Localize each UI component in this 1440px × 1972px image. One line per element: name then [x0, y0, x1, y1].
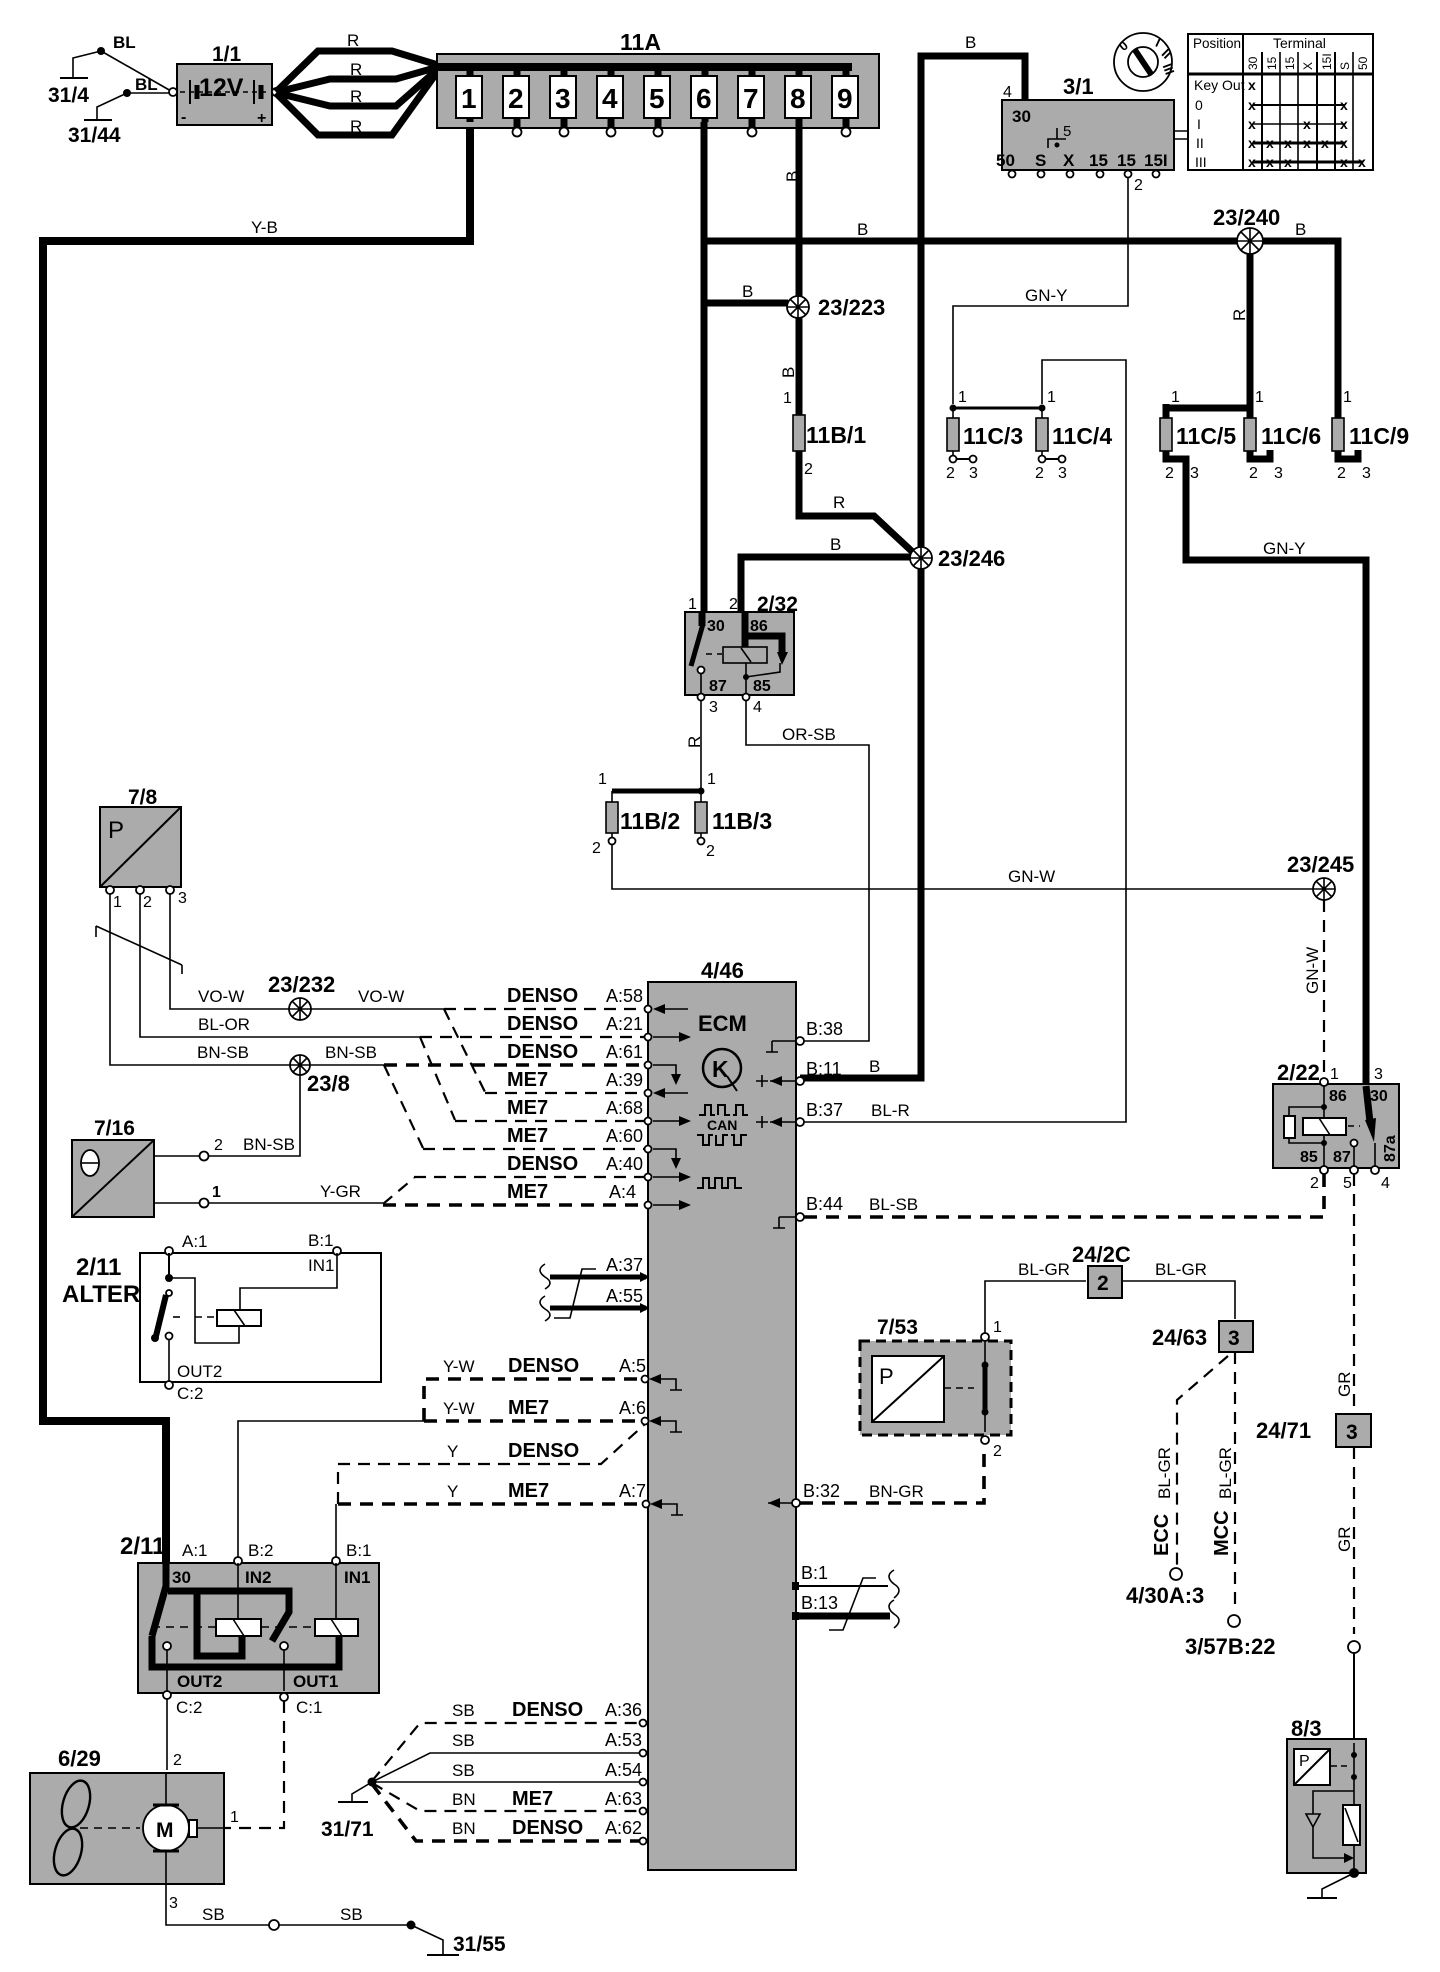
svg-text:DENSO: DENSO [508, 1355, 579, 1377]
wire Y-GR from 7/16 pin 1 to ECM A:4 [154, 1182, 383, 1208]
svg-text:50: 50 [1356, 56, 1370, 70]
svg-text:P: P [879, 1364, 894, 1389]
fuse 11B/1 [783, 390, 866, 478]
svg-text:23/223: 23/223 [818, 295, 885, 320]
svg-text:R: R [347, 31, 359, 50]
twisted-wire slash across 7/8 leads [96, 926, 182, 974]
svg-text:2: 2 [592, 840, 601, 857]
wire SB from 6/29 pin 3 to ground 31/55 [166, 1884, 416, 1930]
ECM left pin row A:21 [645, 1032, 692, 1042]
node 23/240 [1213, 205, 1280, 254]
svg-text:SB: SB [452, 1701, 475, 1720]
svg-text:Y-W: Y-W [443, 1399, 475, 1418]
svg-text:K: K [712, 1056, 729, 1082]
svg-text:I: I [1197, 116, 1201, 132]
svg-text:1: 1 [230, 1809, 239, 1826]
svg-text:SB: SB [452, 1761, 475, 1780]
svg-text:87: 87 [709, 678, 727, 695]
wire B horizontal bus from fuse 6/8 to 11C/9 [704, 220, 1338, 404]
svg-text:A:36: A:36 [605, 1700, 642, 1720]
svg-text:11C/4: 11C/4 [1052, 423, 1112, 449]
ECM left pin row A:68 [645, 1116, 692, 1126]
svg-text:A:62: A:62 [605, 1818, 642, 1838]
ignition key symbol [1114, 33, 1178, 91]
svg-text:SB: SB [452, 1731, 475, 1750]
svg-text:Terminal: Terminal [1273, 35, 1326, 51]
connector 24/2C [1072, 1242, 1131, 1298]
fuse 11C/3 [946, 389, 1046, 482]
svg-text:C:2: C:2 [177, 1384, 203, 1403]
ECM right pin B:11 (B thick) [756, 1059, 842, 1087]
fuse 1 [456, 67, 482, 122]
ECM right pin B:38 [766, 1019, 843, 1052]
svg-text:31/71: 31/71 [321, 1818, 374, 1841]
svg-text:OUT1: OUT1 [293, 1672, 338, 1691]
svg-text:III: III [1195, 154, 1207, 170]
battery 1/1 12V [169, 43, 280, 127]
svg-text:A:1: A:1 [182, 1232, 208, 1251]
svg-text:31/44: 31/44 [68, 124, 121, 147]
relay 2/11 (lower, twin relay) [120, 1533, 379, 1717]
svg-text:R: R [350, 87, 362, 106]
ground at 8/3 [1307, 1873, 1354, 1898]
svg-text:A:1: A:1 [182, 1541, 208, 1560]
svg-text:1: 1 [598, 771, 607, 788]
wire BN to ECM A:62 [372, 1784, 642, 1841]
svg-text:11C/9: 11C/9 [1349, 423, 1409, 449]
svg-text:R: R [350, 60, 362, 79]
svg-text:X: X [1301, 62, 1315, 70]
svg-text:DENSO: DENSO [507, 1013, 578, 1035]
svg-text:12V: 12V [199, 74, 244, 102]
svg-text:3: 3 [1346, 1421, 1358, 1444]
relay 2/22 [1273, 1060, 1399, 1192]
ECM A:37 / A:55 thick pigtails [540, 1255, 650, 1321]
ECM right pins B:1 / B:13 pigtails [792, 1563, 899, 1630]
svg-text:SB: SB [340, 1905, 363, 1924]
svg-text:R: R [350, 117, 362, 136]
svg-text:DENSO: DENSO [512, 1699, 583, 1721]
svg-text:3: 3 [1190, 465, 1199, 482]
relay 2/32 [685, 593, 798, 716]
AC pressure sensor 7/53 [860, 1316, 1011, 1460]
svg-text:B:32: B:32 [803, 1481, 840, 1501]
svg-text:B:1: B:1 [308, 1231, 334, 1250]
wire GR dashed from 24/71 to 8/3 [1335, 1447, 1360, 1743]
svg-text:CAN: CAN [707, 1117, 737, 1133]
svg-text:OR-SB: OR-SB [782, 725, 836, 744]
svg-text:9: 9 [837, 83, 853, 114]
svg-text:8: 8 [790, 83, 806, 114]
wire BL-GR from 24/2C to 24/63 [1122, 1260, 1235, 1319]
ECM left pin row A:4 [645, 1200, 692, 1210]
svg-text:15I: 15I [1320, 53, 1334, 70]
svg-text:24/2C: 24/2C [1072, 1242, 1131, 1267]
node 23/246 [910, 546, 1005, 571]
svg-text:Y: Y [447, 1442, 458, 1461]
svg-text:C:1: C:1 [296, 1698, 322, 1717]
svg-text:3/57B:22: 3/57B:22 [1185, 1634, 1276, 1659]
fuse 4 [597, 67, 623, 137]
svg-text:1/1: 1/1 [212, 43, 242, 66]
ground 31/4 [48, 47, 105, 107]
svg-text:BL-GR: BL-GR [1155, 1447, 1174, 1499]
fuse 11C/9 [1332, 389, 1409, 482]
ECM left pin row A:5 [642, 1374, 683, 1390]
svg-text:IN1: IN1 [308, 1256, 334, 1275]
svg-text:A:7: A:7 [619, 1481, 646, 1501]
svg-text:23/245: 23/245 [1287, 852, 1354, 877]
svg-text:1: 1 [707, 771, 716, 788]
svg-text:B: B [779, 367, 798, 378]
svg-text:BL: BL [135, 75, 158, 94]
svg-text:3: 3 [709, 699, 718, 716]
svg-text:3: 3 [178, 890, 187, 907]
svg-text:A:58: A:58 [606, 986, 643, 1006]
svg-text:1: 1 [1343, 389, 1352, 406]
svg-text:P: P [1299, 1753, 1310, 1770]
wire GN-W from 11B/2 pin 2 to node 23/245 [612, 845, 1313, 889]
svg-text:BN: BN [452, 1819, 476, 1838]
svg-text:3: 3 [1374, 1066, 1383, 1083]
ignition switch 3/1 [996, 74, 1188, 194]
connector 4/30A:3 [1126, 1568, 1204, 1608]
svg-text:7: 7 [743, 83, 759, 114]
svg-text:ME7: ME7 [507, 1181, 548, 1203]
svg-text:S: S [1338, 62, 1352, 70]
wire R from 2/32 pin 3 to 11B/3 [685, 700, 704, 791]
svg-text:87a: 87a [1382, 1135, 1399, 1162]
wire Y from 2/11 pin B:1 to ECM A:6/A:7 [336, 1424, 646, 1559]
svg-text:B:1: B:1 [801, 1563, 828, 1583]
svg-text:ME7: ME7 [508, 1397, 549, 1419]
svg-text:BN-SB: BN-SB [325, 1043, 377, 1062]
wire B from fuse 8 down through 23/223 and 11B/1 to 23/246 [779, 122, 918, 557]
svg-text:23/232: 23/232 [268, 972, 335, 997]
svg-text:B:11: B:11 [806, 1059, 842, 1079]
svg-text:2: 2 [143, 894, 152, 911]
svg-text:GR: GR [1335, 1527, 1354, 1553]
svg-text:11C/6: 11C/6 [1261, 423, 1321, 449]
relay 2/11 ALTER (upper diagram) [62, 1231, 381, 1403]
svg-text:ME7: ME7 [507, 1125, 548, 1147]
ground 31/55 [411, 1925, 506, 1956]
ECM left pin row A:58 [645, 1004, 689, 1014]
fuse 6 [691, 67, 717, 122]
ECM left pin row A:61 [645, 1062, 682, 1086]
ECM left pins A:36 A:53 A:54 A:63 A:62 [640, 1720, 647, 1845]
svg-text:DENSO: DENSO [507, 1153, 578, 1175]
svg-text:R: R [833, 493, 845, 512]
svg-text:A:60: A:60 [606, 1126, 643, 1146]
svg-text:2: 2 [1035, 465, 1044, 482]
svg-text:2/11: 2/11 [120, 1533, 165, 1560]
node 23/8 [290, 1055, 350, 1096]
svg-text:A:63: A:63 [605, 1789, 642, 1809]
wire SB to ECM A:36 [372, 1699, 642, 1781]
svg-text:Y-GR: Y-GR [320, 1182, 361, 1201]
svg-text:OUT2: OUT2 [177, 1672, 222, 1691]
svg-text:1: 1 [993, 1319, 1002, 1336]
wire OR-SB from 2/32 pin 4 to ECM B:38 [746, 700, 869, 1041]
node 23/245 [1287, 852, 1354, 900]
svg-text:3/1: 3/1 [1063, 74, 1094, 99]
svg-text:Y-W: Y-W [443, 1357, 475, 1376]
node 23/223 [787, 295, 885, 320]
svg-text:ECC: ECC [1151, 1514, 1173, 1556]
svg-text:B: B [742, 282, 753, 301]
svg-text:BL-GR: BL-GR [1216, 1447, 1235, 1499]
svg-text:1: 1 [958, 389, 967, 406]
fuse 11C/5 and wire GN-Y to relay 2/22 [1160, 389, 1366, 1086]
dashed wire from 2/11 C:1 to fan motor 6/29 pin 1 [225, 1701, 284, 1828]
svg-text:GN-W: GN-W [1303, 947, 1322, 994]
svg-text:ME7: ME7 [507, 1097, 548, 1119]
wire BL-R from 11C/4 to ECM B:37 [800, 360, 1126, 1122]
ECM left pin row A:60 [645, 1146, 682, 1170]
ECM left pin row A:40 [645, 1172, 692, 1182]
svg-text:VO-W: VO-W [358, 987, 404, 1006]
svg-text:B: B [830, 535, 841, 554]
svg-text:2/11: 2/11 [76, 1254, 121, 1281]
fuse 5 [644, 67, 670, 137]
svg-text:4/46: 4/46 [701, 958, 744, 983]
svg-text:23/240: 23/240 [1213, 205, 1280, 230]
svg-text:2: 2 [1097, 1272, 1109, 1295]
svg-text:11C/5: 11C/5 [1176, 423, 1236, 449]
wire BN to ECM A:63 [372, 1783, 642, 1811]
svg-text:2: 2 [173, 1752, 182, 1769]
svg-text:30: 30 [707, 618, 725, 635]
ECM 4/46 [648, 958, 796, 1870]
svg-text:+: + [257, 110, 266, 127]
svg-text:IN1: IN1 [344, 1568, 370, 1587]
svg-text:DENSO: DENSO [508, 1440, 579, 1462]
svg-text:5: 5 [1343, 1175, 1352, 1192]
ground 31/44 [68, 89, 131, 147]
svg-text:11B/2: 11B/2 [620, 808, 680, 834]
wire BL-GR from 7/53 pin 1 via 24/2C to 24/63 [985, 1260, 1086, 1333]
svg-text:15I: 15I [1144, 151, 1168, 170]
svg-text:DENSO: DENSO [512, 1817, 583, 1839]
svg-text:ME7: ME7 [508, 1480, 549, 1502]
fuse 11C/6 [1244, 389, 1321, 482]
ignition position/terminal table [1188, 34, 1373, 170]
wire from 2/11 C:2 to fan motor 6/29 pin 2 [167, 1699, 182, 1770]
svg-text:BL-R: BL-R [871, 1101, 910, 1120]
svg-text:BL-SB: BL-SB [869, 1195, 918, 1214]
svg-text:2: 2 [1165, 465, 1174, 482]
svg-text:B:37: B:37 [806, 1100, 843, 1120]
svg-text:5: 5 [649, 83, 665, 114]
svg-text:1: 1 [1330, 1066, 1339, 1083]
svg-text:4: 4 [1003, 84, 1012, 101]
svg-text:A:40: A:40 [606, 1154, 643, 1174]
svg-text:BL-GR: BL-GR [1155, 1260, 1207, 1279]
svg-text:B:1: B:1 [346, 1541, 372, 1560]
svg-text:A:37: A:37 [606, 1255, 643, 1275]
svg-text:3: 3 [1274, 465, 1283, 482]
svg-text:MCC: MCC [1211, 1510, 1233, 1556]
wire R from 23/240 down to 11C/5-11C/6 [1166, 254, 1250, 408]
svg-text:24/63: 24/63 [1152, 1325, 1207, 1350]
fuse box 11A [437, 29, 879, 128]
svg-text:11B/3: 11B/3 [712, 808, 772, 834]
ECM left pin row A:7 [643, 1499, 684, 1515]
svg-text:24/71: 24/71 [1256, 1418, 1311, 1443]
svg-text:M: M [156, 1819, 174, 1842]
svg-text:2: 2 [1249, 465, 1258, 482]
wire SB to ECM A:54 [372, 1760, 642, 1782]
ECM right pin B:44 and dashed BL-SB wire to 2/22 pin 2 [773, 1174, 1324, 1228]
svg-text:VO-W: VO-W [198, 987, 244, 1006]
svg-text:GN-Y: GN-Y [1025, 286, 1068, 305]
svg-text:BN: BN [452, 1790, 476, 1809]
svg-text:86: 86 [1329, 1088, 1347, 1105]
svg-text:C:2: C:2 [176, 1698, 202, 1717]
connector 24/71 [1256, 1414, 1371, 1447]
svg-text:BN-SB: BN-SB [197, 1043, 249, 1062]
wire SB to ECM A:53 [372, 1730, 642, 1782]
svg-text:ME7: ME7 [512, 1788, 553, 1810]
svg-text:R: R [685, 736, 704, 748]
svg-text:II: II [1196, 135, 1204, 151]
svg-text:Position: Position [1193, 36, 1241, 51]
svg-text:A:54: A:54 [605, 1760, 642, 1780]
svg-text:BL-GR: BL-GR [1018, 1260, 1070, 1279]
svg-text:3: 3 [169, 1895, 178, 1912]
dashed BL-GR wires from 24/63 to ECC and MCC [1151, 1352, 1235, 1612]
wire VO-W from 7/8 pin 3 to 23/232 and ECM A:58 [170, 894, 444, 1009]
svg-text:2: 2 [804, 461, 813, 478]
svg-text:BL-OR: BL-OR [198, 1015, 250, 1034]
svg-text:BL: BL [113, 33, 136, 52]
fuse 8 [785, 67, 811, 122]
svg-text:50: 50 [996, 151, 1015, 170]
wire GN-W dashed from 23/245 to relay 2/22 pin 1 [1303, 900, 1324, 1080]
ground 31/71 with SB/BN fan-out to ECM [321, 1778, 377, 1842]
wire B vertical main feed to 23/246 and ECM B:11 [800, 33, 1025, 1078]
svg-text:1: 1 [688, 596, 697, 613]
svg-text:SB: SB [202, 1905, 225, 1924]
svg-text:2: 2 [214, 1137, 223, 1154]
connector 24/63 [1152, 1321, 1253, 1352]
ECM right pin B:37 [756, 1100, 910, 1128]
svg-text:85: 85 [753, 678, 771, 695]
svg-text:ME7: ME7 [507, 1069, 548, 1091]
svg-text:B:13: B:13 [801, 1593, 838, 1613]
svg-text:3: 3 [1228, 1327, 1240, 1350]
svg-text:-: - [181, 109, 186, 126]
svg-text:2: 2 [706, 843, 715, 860]
svg-text:B: B [783, 171, 802, 182]
svg-text:ALTER: ALTER [62, 1281, 140, 1308]
svg-text:4: 4 [753, 699, 762, 716]
wire BL from 31/4 to battery [101, 33, 171, 91]
svg-text:1: 1 [783, 390, 792, 407]
svg-text:BN-SB: BN-SB [243, 1135, 295, 1154]
wire B from fuse 6 down to relay 2/32 pin 1 [704, 122, 753, 614]
svg-text:A:68: A:68 [606, 1098, 643, 1118]
fuse 7 [738, 67, 764, 137]
svg-text:11A: 11A [620, 29, 661, 55]
wire BL-OR from 7/8 pin 2 to ECM A:21 [140, 894, 420, 1037]
svg-text:11C/3: 11C/3 [963, 423, 1023, 449]
wire B from 23/246 left and down to relay 2/32 pin 2 [741, 535, 910, 614]
fuse 2 [503, 67, 529, 137]
svg-text:B:44: B:44 [806, 1194, 843, 1214]
svg-text:Key Out: Key Out [1194, 77, 1245, 93]
svg-text:31/4: 31/4 [48, 84, 89, 107]
svg-text:31/55: 31/55 [453, 1933, 506, 1956]
svg-text:Y: Y [447, 1482, 458, 1501]
svg-text:3: 3 [969, 465, 978, 482]
pressure sensor 7/8 [100, 786, 187, 911]
svg-text:ECM: ECM [698, 1011, 747, 1036]
svg-text:GN-W: GN-W [1008, 867, 1055, 886]
svg-text:2/22: 2/22 [1277, 1060, 1320, 1085]
svg-text:2: 2 [1337, 465, 1346, 482]
connector 3/57B:22 [1185, 1615, 1276, 1659]
svg-text:4: 4 [1381, 1175, 1390, 1192]
wire BN-SB from 7/16 pin 2 to node 23/8 [154, 1075, 300, 1161]
svg-text:GR: GR [1335, 1372, 1354, 1398]
svg-text:B: B [1295, 220, 1306, 239]
svg-text:x: x [1248, 77, 1256, 93]
svg-text:2: 2 [508, 83, 524, 114]
wire Y-W from 2/11 pin B:2 to ECM A:5/A:6 [238, 1355, 646, 1559]
svg-text:1: 1 [1255, 389, 1264, 406]
svg-text:15: 15 [1117, 151, 1136, 170]
svg-text:B:38: B:38 [806, 1019, 843, 1039]
radiator fan 6/29 [30, 1746, 225, 1884]
svg-text:5: 5 [1063, 123, 1071, 140]
svg-text:7/16: 7/16 [94, 1117, 135, 1140]
svg-text:30: 30 [1246, 56, 1260, 70]
svg-text:3: 3 [1058, 465, 1067, 482]
wire R fan-out battery to fuse box (4 parallel R wires) [276, 31, 438, 136]
svg-text:Y-B: Y-B [251, 218, 278, 237]
wire BL from 31/44 to battery [127, 75, 171, 94]
dashed signal rows into ECM A:58 A:21 A:61 A:39 A:68 A:60 A:40 A:4 [383, 985, 645, 1205]
svg-text:1: 1 [1171, 389, 1180, 406]
svg-text:A:61: A:61 [606, 1042, 643, 1062]
wire BN-SB from 7/8 pin 1 to 23/8 and ECM A:61 [110, 894, 384, 1065]
wire B from 23/223 left to fuse-6 wire [704, 300, 788, 307]
wire Y-B from fuse 1 down-left and to 2/11 relay pin A:1 [43, 124, 470, 1566]
svg-text:A:21: A:21 [606, 1014, 643, 1034]
svg-text:1: 1 [461, 83, 477, 114]
svg-text:30: 30 [1012, 107, 1031, 126]
fuse 11C/4 [1035, 389, 1112, 482]
ECM left pin row A:6 [642, 1416, 683, 1432]
ECM right pin B:32 and dashed BN-GR wire to 7/53 pin 2 [768, 1451, 984, 1508]
svg-text:B:2: B:2 [248, 1541, 274, 1560]
AC relay/evaporator unit 8/3 [1287, 1716, 1366, 1878]
svg-text:2: 2 [729, 596, 738, 613]
svg-text:87: 87 [1333, 1149, 1351, 1166]
svg-text:6/29: 6/29 [58, 1746, 101, 1771]
svg-text:7/53: 7/53 [877, 1316, 918, 1339]
svg-text:4/30A:3: 4/30A:3 [1126, 1583, 1204, 1608]
svg-text:OUT2: OUT2 [177, 1362, 222, 1381]
svg-text:A:55: A:55 [606, 1286, 643, 1306]
svg-text:0: 0 [1195, 97, 1203, 113]
svg-text:1: 1 [113, 894, 122, 911]
svg-text:3: 3 [555, 83, 571, 114]
svg-text:6: 6 [696, 83, 712, 114]
svg-text:R: R [1230, 309, 1249, 321]
